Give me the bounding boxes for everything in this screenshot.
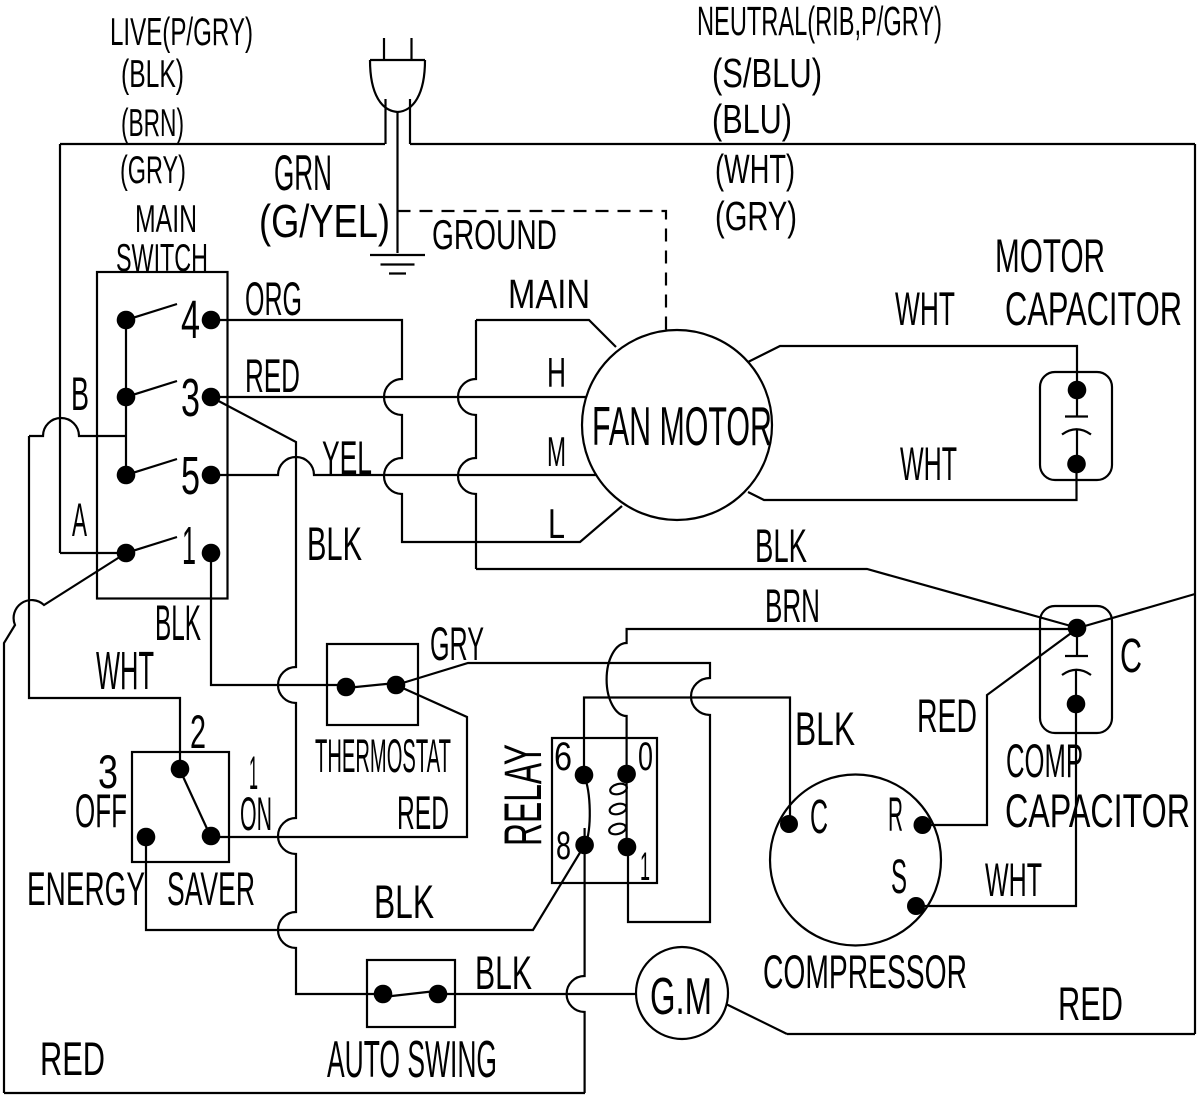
wire WHT from node B down to energy saver contact 2 <box>29 436 180 769</box>
switch contact 4 left dot <box>117 311 136 330</box>
svg-text:AUTO SWING: AUTO SWING <box>327 1031 497 1089</box>
compressor circle <box>770 775 941 946</box>
svg-text:2: 2 <box>190 705 206 758</box>
wire BLK auto swing to G.M <box>438 993 636 995</box>
svg-text:BLK: BLK <box>307 517 362 570</box>
motor capacitor plates <box>1062 417 1091 435</box>
svg-text:RED: RED <box>397 786 449 839</box>
svg-text:WHT: WHT <box>96 641 154 701</box>
energy saver blade <box>180 770 209 833</box>
wire BLK contact 1 down to thermostat with jump <box>211 553 346 685</box>
plug prong left <box>383 38 385 60</box>
svg-text:WHT: WHT <box>895 282 955 335</box>
svg-text:GROUND: GROUND <box>432 211 557 258</box>
energy saver contact 3 OFF dot <box>137 828 156 847</box>
svg-text:FAN MOTOR: FAN MOTOR <box>592 395 772 457</box>
wire BLK energy saver to relay 8 <box>146 837 585 930</box>
svg-text:(BRN): (BRN) <box>121 102 184 145</box>
comp capacitor top lead <box>1076 629 1078 656</box>
wire top border right segment <box>410 143 1195 145</box>
wire RED contact 3 to fan motor H <box>211 396 586 398</box>
svg-text:NEUTRAL(RIB,P/GRY): NEUTRAL(RIB,P/GRY) <box>697 0 942 44</box>
svg-text:L: L <box>548 500 565 547</box>
thermostat left dot <box>337 678 356 697</box>
svg-text:3: 3 <box>181 368 200 428</box>
svg-text:R: R <box>888 789 903 842</box>
svg-text:S: S <box>891 851 907 904</box>
motor capacitor top dot <box>1068 381 1087 400</box>
svg-text:BLK: BLK <box>795 702 855 755</box>
svg-text:GRY: GRY <box>430 617 484 670</box>
svg-text:5: 5 <box>181 446 200 506</box>
svg-text:RED: RED <box>245 349 300 402</box>
svg-text:C: C <box>1120 630 1142 683</box>
svg-text:M: M <box>547 428 566 475</box>
energy saver contact 1 ON dot <box>202 827 221 846</box>
plug cord right <box>409 99 411 144</box>
switch contact 5 right dot <box>202 466 221 485</box>
svg-text:1: 1 <box>182 516 196 576</box>
plug cord left <box>384 99 386 144</box>
wire diagonal G.M to bottom border <box>726 1004 787 1034</box>
svg-text:RED: RED <box>40 1032 105 1085</box>
svg-text:BRN: BRN <box>765 579 820 632</box>
svg-text:(G/YEL): (G/YEL) <box>259 195 390 247</box>
comp capacitor plates <box>1062 656 1091 675</box>
motor capacitor bottom lead <box>1076 429 1078 464</box>
energy saver contact 2 dot <box>171 760 190 779</box>
wire bottom left border RED <box>4 1092 585 1094</box>
motor capacitor top lead <box>1076 390 1078 416</box>
switch contact 1 right dot <box>202 544 221 563</box>
plug cord center to ground <box>396 112 398 253</box>
svg-text:BLK: BLK <box>755 519 807 572</box>
svg-text:0: 0 <box>638 735 653 779</box>
plug body <box>370 60 425 112</box>
wire BLK relay 6 to compressor C <box>584 698 790 825</box>
switch contact 1 left dot <box>117 544 136 563</box>
fan motor circle <box>582 330 772 520</box>
svg-text:1: 1 <box>640 845 650 889</box>
auto swing left dot <box>374 985 393 1004</box>
wire top border left segment <box>60 143 385 145</box>
svg-text:WHT: WHT <box>900 437 957 490</box>
switch blade 5 <box>126 459 177 475</box>
relay stub above contact 8 <box>583 828 585 845</box>
switch contact 5 left dot <box>117 466 136 485</box>
svg-text:6: 6 <box>554 735 572 779</box>
svg-text:C: C <box>810 791 828 844</box>
svg-text:CAPACITOR: CAPACITOR <box>1005 784 1190 837</box>
svg-text:BLK: BLK <box>155 595 201 651</box>
wire YEL contact 5 to fan motor M with jump <box>211 457 597 475</box>
svg-text:(BLK): (BLK) <box>121 53 184 96</box>
relay box <box>552 738 657 883</box>
svg-text:SAVER: SAVER <box>167 862 255 915</box>
switch contact 4 right dot <box>202 311 221 330</box>
svg-text:YEL: YEL <box>322 431 372 484</box>
relay blade 6-8 <box>584 777 590 844</box>
compressor S dot <box>907 897 925 915</box>
relay coil loop 2 <box>608 802 627 816</box>
svg-text:4: 4 <box>181 290 200 350</box>
svg-text:A: A <box>72 493 87 546</box>
svg-text:MAIN: MAIN <box>135 198 197 241</box>
svg-text:B: B <box>71 367 89 420</box>
svg-text:CAPACITOR: CAPACITOR <box>1005 282 1182 335</box>
svg-text:ON: ON <box>240 787 272 840</box>
svg-text:COMP: COMP <box>1006 734 1083 787</box>
wire BLK contact 3 diagonal and vertical down to auto swing <box>211 397 383 994</box>
svg-text:BLK: BLK <box>374 875 434 928</box>
motor capacitor bottom dot <box>1067 455 1086 474</box>
svg-text:(GRY): (GRY) <box>715 193 797 239</box>
motor capacitor body <box>1040 372 1112 480</box>
svg-text:H: H <box>547 349 566 396</box>
auto swing box <box>367 960 455 1027</box>
svg-text:WHT: WHT <box>985 853 1042 906</box>
svg-text:(BLU): (BLU) <box>712 96 792 142</box>
auto swing right dot <box>429 985 448 1004</box>
wire RED thermostat to energy saver ON <box>211 685 467 837</box>
relay contact 0 dot <box>617 765 636 784</box>
compressor C dot <box>780 815 798 833</box>
svg-text:ENERGY: ENERGY <box>27 862 145 915</box>
thermostat right dot <box>387 676 406 695</box>
svg-text:(GRY): (GRY) <box>120 149 186 192</box>
wire relay 8 down to bottom border with jump <box>567 845 585 1093</box>
main switch box <box>97 272 228 599</box>
G.M motor circle <box>636 947 728 1039</box>
wire BRN relay 0 to comp capacitor with big jump <box>607 629 1078 774</box>
svg-text:LIVE(P/GRY): LIVE(P/GRY) <box>110 11 253 54</box>
wire node A horizontal to switch contact 1 <box>60 552 126 554</box>
svg-text:RELAY: RELAY <box>494 744 553 846</box>
wire GRY thermostat to relay 1 <box>396 663 710 922</box>
comp capacitor top dot <box>1068 619 1087 638</box>
svg-text:RED: RED <box>1058 977 1123 1030</box>
switch contact 3 right dot <box>202 388 221 407</box>
relay contact 6 dot <box>575 766 594 785</box>
svg-text:SWITCH: SWITCH <box>116 237 208 280</box>
svg-text:(S/BLU): (S/BLU) <box>712 50 822 96</box>
relay contact 1 dot <box>618 838 637 857</box>
thermostat blade <box>346 683 396 688</box>
svg-text:ORG: ORG <box>245 272 302 325</box>
svg-text:MAIN: MAIN <box>508 271 590 317</box>
compressor R dot <box>914 816 932 834</box>
wire WHT fan motor to motor capacitor top <box>748 346 1077 390</box>
svg-text:THERMOSTAT: THERMOSTAT <box>315 729 451 782</box>
relay coil loop 3 <box>608 822 627 836</box>
wire ORG contact 4 to fan motor L <box>211 320 622 542</box>
switch contact 3 left dot <box>117 388 136 407</box>
relay coil line <box>625 774 627 847</box>
svg-text:BLK: BLK <box>475 946 532 999</box>
wire WHT fan motor to motor capacitor bottom <box>748 464 1077 500</box>
ground symbol <box>370 255 425 274</box>
svg-text:(WHT): (WHT) <box>715 146 795 192</box>
wire node B horizontal with jump over left border <box>29 418 126 436</box>
auto swing blade <box>383 991 436 997</box>
svg-text:G.M: G.M <box>650 968 712 1026</box>
fan motor connector outline <box>458 320 616 569</box>
comp capacitor body <box>1040 606 1112 733</box>
comp capacitor bottom lead <box>1075 670 1077 704</box>
wire WHT compressor S to comp capacitor bottom <box>916 702 1076 906</box>
svg-text:GRN: GRN <box>274 145 332 201</box>
svg-text:OFF: OFF <box>75 784 127 837</box>
switch blade 1 <box>126 537 177 553</box>
svg-text:MOTOR: MOTOR <box>995 229 1105 282</box>
energy saver box <box>132 752 229 862</box>
svg-text:COMPRESSOR: COMPRESSOR <box>763 945 967 998</box>
comp capacitor bottom dot <box>1067 695 1086 714</box>
wire right border branch to comp capacitor node <box>1078 594 1195 628</box>
wire RED left: switch contact 1 to bottom left border <box>4 553 126 1093</box>
relay contact 8 dot <box>575 836 594 855</box>
wire BLK fan motor bottom to comp capacitor node <box>476 569 1078 628</box>
wire switch common bar contacts 4-3-5 <box>125 320 127 475</box>
thermostat box <box>327 644 418 725</box>
wire left border (LIVE feed) <box>59 144 61 553</box>
switch blade 3 <box>126 381 177 397</box>
wire RED compressor R to comp capacitor node <box>923 628 1079 825</box>
wire bottom right border <box>787 1033 1195 1035</box>
relay coil loop 1 <box>609 782 628 796</box>
svg-text:8: 8 <box>556 824 571 868</box>
switch blade 4 <box>126 304 177 320</box>
wire right border <box>1194 144 1196 1034</box>
wire dashed ground to fan motor <box>398 211 667 330</box>
plug prong right <box>410 38 412 60</box>
svg-text:RED: RED <box>917 689 977 742</box>
